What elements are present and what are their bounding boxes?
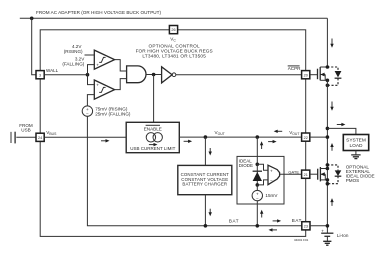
wire: VOUT net down to battery charger (204, 137, 206, 165)
svg-text:22: 22 (304, 136, 308, 140)
svg-text:BATTERY CHARGER: BATTERY CHARGER (182, 182, 227, 187)
current arrow: up from ideal diode to VOUT net (260, 141, 263, 149)
label: 75mV (RISING) / 25mV (FALLING) (95, 107, 131, 117)
wire: op-amp output to GATE pin (280, 173, 302, 175)
current arrow: left above VOUT net (274, 130, 283, 133)
svg-text:34001 F01: 34001 F01 (294, 238, 309, 242)
connector: FROM USB plug (11, 132, 36, 144)
wire: upper comparator output to AND gate (115, 60, 127, 71)
svg-text:FROM AC ADAPTER (OR HIGH VOLTA: FROM AC ADAPTER (OR HIGH VOLTAGE BUCK OU… (36, 10, 161, 15)
svg-text:21: 21 (304, 173, 308, 177)
wire: VBUS net to USB current limit block (44, 136, 126, 138)
svg-text:VC: VC (170, 37, 176, 43)
svg-text:VOUT: VOUT (289, 130, 299, 136)
svg-text:25mV (FALLING): 25mV (FALLING) (95, 112, 131, 117)
wire: wall drop from AC rail to WALL pin (32, 18, 36, 74)
wire: inverter output to ACPR pin (176, 74, 302, 76)
wire: 4.2V threshold stub to upper comparator input (85, 54, 95, 56)
current arrow: right below VOUT net (268, 140, 277, 143)
svg-text:VOUT: VOUT (215, 130, 225, 136)
label: FROM USB (19, 123, 33, 133)
svg-text:15mV: 15mV (265, 193, 278, 198)
label: 4.2V (RISING) / 3.2V (FALLING) threshold (62, 44, 85, 67)
svg-text:BAT: BAT (229, 219, 239, 224)
svg-text:−: − (86, 111, 89, 116)
diode D3 (external PMOS body diode, dashed) (326, 163, 342, 185)
current arrow: left below BAT net (269, 228, 278, 231)
wire: to SYSTEM LOAD box (327, 128, 356, 134)
ground: battery ground (323, 241, 331, 245)
node: charger tee on BAT net (204, 224, 208, 228)
node: wall comparator input junction (86, 73, 90, 77)
wire: enable drop to USB current limit block (153, 75, 155, 123)
inverter U2 (162, 67, 176, 83)
comparator A2 (wall present, bottom) (94, 80, 114, 99)
node: battery tee on external rail (326, 224, 330, 228)
current arrow: into VOUT net (184, 140, 193, 143)
svg-text:+: + (96, 62, 99, 67)
block: USB current limit (ENABLE) (126, 122, 179, 152)
svg-text:BAT: BAT (292, 218, 302, 223)
node: VOUT pin tee on external rail (326, 135, 330, 139)
pin BAT (302, 222, 310, 230)
IC boundary box (40, 30, 306, 237)
ground: system load ground (351, 151, 360, 159)
voltage source V1 75mV/25mV (82, 106, 92, 117)
voltage source V2 15mV offset (252, 185, 262, 201)
current arrow: down to VOUT tee (330, 102, 333, 111)
label: OPTIONAL EXTERNAL IDEAL DIODE PMOS (346, 164, 375, 183)
wire: 15mV source down to BAT net (256, 201, 258, 226)
pin VC (169, 26, 177, 34)
battery BT1 Li-Ion (321, 228, 333, 241)
svg-text:Li-Ion: Li-Ion (337, 233, 349, 238)
node: charger tee on VOUT net (204, 135, 208, 139)
svg-text:VBUS: VBUS (46, 130, 57, 136)
svg-text:LT3480, LT3481 OR LT3505: LT3480, LT3481 OR LT3505 (142, 54, 206, 59)
label: OPTIONAL CONTROL FOR HIGH VOLTAGE BUCK REGS LT3480, LT3481 OR LT3505 (136, 43, 213, 58)
wire: external rail from AC line down to wall PMOS (326, 18, 328, 67)
wire: external VOUT rail from wall PMOS down to battery (326, 80, 328, 233)
svg-text:(FALLING): (FALLING) (62, 62, 84, 67)
wire: VOUT net from current limit block to VOUT pin (179, 136, 301, 138)
current arrow: discharge current up from BAT (260, 210, 263, 218)
wire: wall node to upper comparator + input (88, 65, 95, 75)
diode D2 (internal ideal diode) (253, 164, 262, 185)
diode D1 (wall PMOS body diode, dashed) (326, 67, 342, 87)
wire: ACPR pin to wall PMOS gate (310, 74, 318, 76)
current arrow: down toward wall PMOS (330, 39, 333, 48)
AND gate U1 (127, 66, 146, 83)
svg-text:3: 3 (39, 73, 41, 77)
current arrow: up from battery rail to VOUT (330, 143, 333, 151)
block: ideal diode (237, 156, 284, 204)
current arrow: charge current into charger (209, 148, 212, 156)
current arrow: into system load (337, 123, 346, 126)
svg-text:24: 24 (38, 136, 42, 140)
op-amp U3 (ideal diode amplifier) (257, 164, 279, 185)
svg-text:USB: USB (21, 128, 30, 133)
svg-text:WALL: WALL (46, 68, 59, 73)
current arrow: right above BAT net (273, 219, 282, 222)
pin WALL (36, 71, 44, 79)
node: ideal diode top node (255, 163, 259, 167)
node: system load tee on external rail (326, 127, 330, 131)
wire: AC adapter top rail (20, 17, 328, 19)
svg-text:−: − (256, 196, 259, 201)
wire: BAT pin to battery (310, 225, 327, 227)
wire: wall node to lower comparator + input (88, 75, 95, 85)
node: ideal diode bottom node (255, 183, 259, 187)
svg-text:ENABLE: ENABLE (144, 127, 162, 132)
svg-text:23: 23 (304, 225, 308, 229)
SYSTEM LOAD box (343, 135, 368, 151)
svg-text:(RISING): (RISING) (64, 49, 83, 54)
pin GATE (302, 170, 310, 178)
transistor Q1 wall PMOS (318, 65, 330, 82)
wire: WALL net to comparator node (44, 74, 87, 76)
svg-text:ACPR: ACPR (288, 66, 301, 71)
svg-text:PMOS: PMOS (346, 178, 360, 183)
svg-text:26: 26 (171, 28, 175, 32)
wire: AND output to inverter (146, 74, 162, 76)
current arrow: charge current into BAT (209, 209, 212, 217)
svg-text:−: − (270, 178, 273, 183)
node: ideal diode tee on BAT net (255, 224, 259, 228)
node: junction of wall drop on AC rail (30, 17, 34, 21)
transistor Q2 external ideal diode PMOS (318, 167, 330, 182)
svg-text:+: + (96, 82, 99, 87)
svg-text:20: 20 (304, 73, 308, 77)
wire: 75mV source down to BAT net (87, 116, 301, 226)
wire: VOUT pin to external rail (310, 136, 328, 138)
block: constant current / constant voltage battery charger (178, 165, 232, 194)
node: junction AND output / enable drop (152, 73, 156, 77)
svg-text:GATE: GATE (288, 169, 299, 174)
svg-text:SYSTEM: SYSTEM (346, 138, 366, 144)
pin ACPR (302, 71, 310, 79)
label: ACPR (overlined) (288, 66, 301, 71)
svg-text:+: + (270, 169, 273, 174)
wire: GATE pin to external PMOS gate (310, 173, 318, 175)
svg-text:LOAD: LOAD (349, 143, 363, 149)
svg-text:DIODE: DIODE (239, 163, 253, 168)
current arrow: USB input current (101, 139, 110, 142)
wire: VOUT net down into ideal diode block (256, 137, 258, 164)
current arrow: discharge current up external rail (330, 198, 333, 206)
wire: charger down to BAT net (204, 195, 206, 226)
pin VOUT (302, 133, 310, 141)
wire: lower comparator - input to 75mV source (87, 95, 94, 106)
comparator A1 (overvoltage, top) (94, 50, 114, 69)
wire: lower comparator output to AND gate (115, 79, 127, 90)
svg-text:USB CURRENT LIMIT: USB CURRENT LIMIT (130, 146, 175, 151)
node: ideal diode tee on VOUT net (255, 135, 259, 139)
pin VBUS (36, 133, 44, 141)
